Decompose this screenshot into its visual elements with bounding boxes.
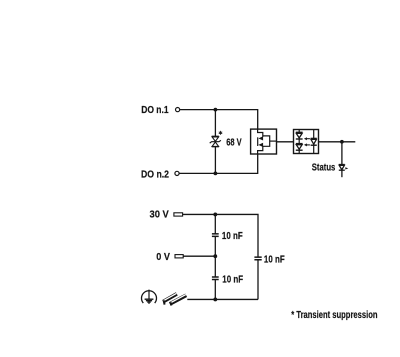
wire DO n.2 to MOSFET source: [179, 154, 258, 173]
node junction 30 V: [213, 213, 217, 217]
svg-text:68 V: 68 V: [226, 137, 242, 148]
suppressor diode 68 V (bidirectional TVS): [210, 136, 221, 146]
diode pair optocoupler input: [296, 130, 303, 154]
diode optocoupler output: [311, 130, 317, 154]
node junction top TVS: [214, 108, 218, 112]
capacitor C2 10 nF: [212, 277, 219, 280]
svg-text:30 V: 30 V: [150, 210, 170, 221]
wire 0V junction to C2: [214, 256, 216, 277]
LED status indicator: [339, 165, 349, 171]
wire C1 to 0V junction: [214, 237, 216, 257]
node junction status branch: [340, 140, 344, 144]
capacitor C3 10 nF: [254, 257, 261, 260]
svg-text:10 nF: 10 nF: [222, 231, 243, 242]
capacitor C1 10 nF: [212, 234, 219, 237]
wire optocoupler output: [319, 141, 356, 143]
wire ground rail: [187, 298, 258, 300]
terminal 30 V: [174, 213, 183, 216]
svg-text:10 nF: 10 nF: [264, 255, 285, 266]
wire 30 V rail: [183, 214, 258, 257]
wire status LED lead: [341, 142, 343, 177]
wire C2 to ground rail: [214, 280, 216, 300]
light arrows optocoupler: [304, 137, 310, 146]
svg-text:0 V: 0 V: [156, 252, 170, 263]
svg-text:* Transient suppression: * Transient suppression: [291, 310, 377, 321]
svg-text:10 nF: 10 nF: [222, 274, 243, 285]
wire C3 to ground corner: [257, 260, 259, 300]
wire TVS bottom lead: [214, 147, 216, 174]
svg-text:Status: Status: [312, 163, 336, 174]
wire DO n.1 to MOSFET drain: [180, 110, 258, 130]
op-amp U2 optocoupler box: [294, 130, 319, 154]
terminal 0 V: [175, 255, 183, 258]
transistor Q1 MOSFET symbol: [258, 129, 277, 154]
terminal DO n.1: [176, 108, 180, 112]
asterisk marker at TVS: [219, 131, 222, 134]
wire 30V junction to C1: [214, 214, 216, 233]
wire MOSFET gate to optocoupler: [277, 141, 294, 143]
node junction bottom TVS: [214, 172, 218, 176]
transistor Q1 output MOSFET box: [251, 129, 277, 154]
node junction ground: [213, 298, 217, 302]
wire 0 V rail: [183, 255, 215, 257]
ground DIN rail symbol: [163, 293, 186, 305]
node junction 0 V: [213, 254, 217, 258]
svg-text:DO n.2: DO n.2: [141, 169, 169, 180]
ground functional earth symbol: [142, 290, 157, 304]
wire TVS top lead: [214, 110, 216, 137]
svg-text:DO n.1: DO n.1: [141, 105, 169, 116]
terminal DO n.2: [175, 171, 179, 175]
